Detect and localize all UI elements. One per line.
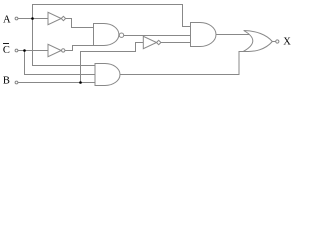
svg-text:C: C bbox=[3, 45, 10, 56]
svg-text:B: B bbox=[3, 75, 10, 86]
junction dot B bbox=[79, 81, 82, 84]
inverter U1 (A) triangle bbox=[48, 12, 61, 24]
label C macron bbox=[3, 43, 9, 45]
junction dot A bbox=[31, 17, 34, 20]
wire U2 output to NAND U2 input 2 bbox=[65, 46, 94, 51]
wire A input bbox=[18, 18, 48, 20]
inverter U3 diamond bubble bbox=[157, 40, 161, 44]
OR gate U6 body bbox=[244, 31, 273, 52]
wire U1 output to NAND U2 input 1 bbox=[66, 19, 94, 28]
wire B input to AND U5 input 3 bbox=[18, 82, 95, 84]
inverter U1 diamond bubble bbox=[61, 16, 65, 20]
AND gate U4 body bbox=[191, 23, 217, 47]
NAND gate U2 bubble bbox=[119, 33, 123, 37]
wire OR output bbox=[272, 41, 275, 43]
wire U3 output to AND U4 input 3 bbox=[161, 42, 191, 44]
wire C-bar branch down to AND U5 input 2 bbox=[25, 51, 96, 75]
svg-text:A: A bbox=[3, 14, 11, 25]
output terminal X bbox=[276, 40, 279, 43]
wire AND U5 output to OR U6 input 2 bbox=[120, 52, 247, 75]
svg-text:X: X bbox=[283, 37, 291, 48]
input terminal B bbox=[15, 81, 18, 84]
wire AND U4 output to OR U6 input 1 bbox=[216, 34, 250, 36]
NAND gate U2 body bbox=[94, 24, 119, 46]
wire NAND output to AND U4 input 2 bbox=[124, 35, 191, 37]
inverter U2 circle bubble bbox=[62, 49, 65, 52]
AND gate U5 body bbox=[95, 64, 120, 86]
inverter U2 (C-bar) triangle bbox=[48, 44, 61, 56]
wire A branch to top rail and drop to AND U4 input 1 bbox=[33, 5, 191, 27]
wire B branch up to inverter U3 input bbox=[81, 43, 144, 83]
wire A branch down to AND U5 input 1 bbox=[33, 19, 96, 66]
junction dot C-bar bbox=[23, 49, 26, 52]
input terminal A bbox=[15, 17, 18, 20]
wire C-bar input bbox=[18, 50, 48, 52]
input terminal C-bar bbox=[15, 49, 18, 52]
inverter U3 (B) triangle bbox=[143, 36, 156, 48]
